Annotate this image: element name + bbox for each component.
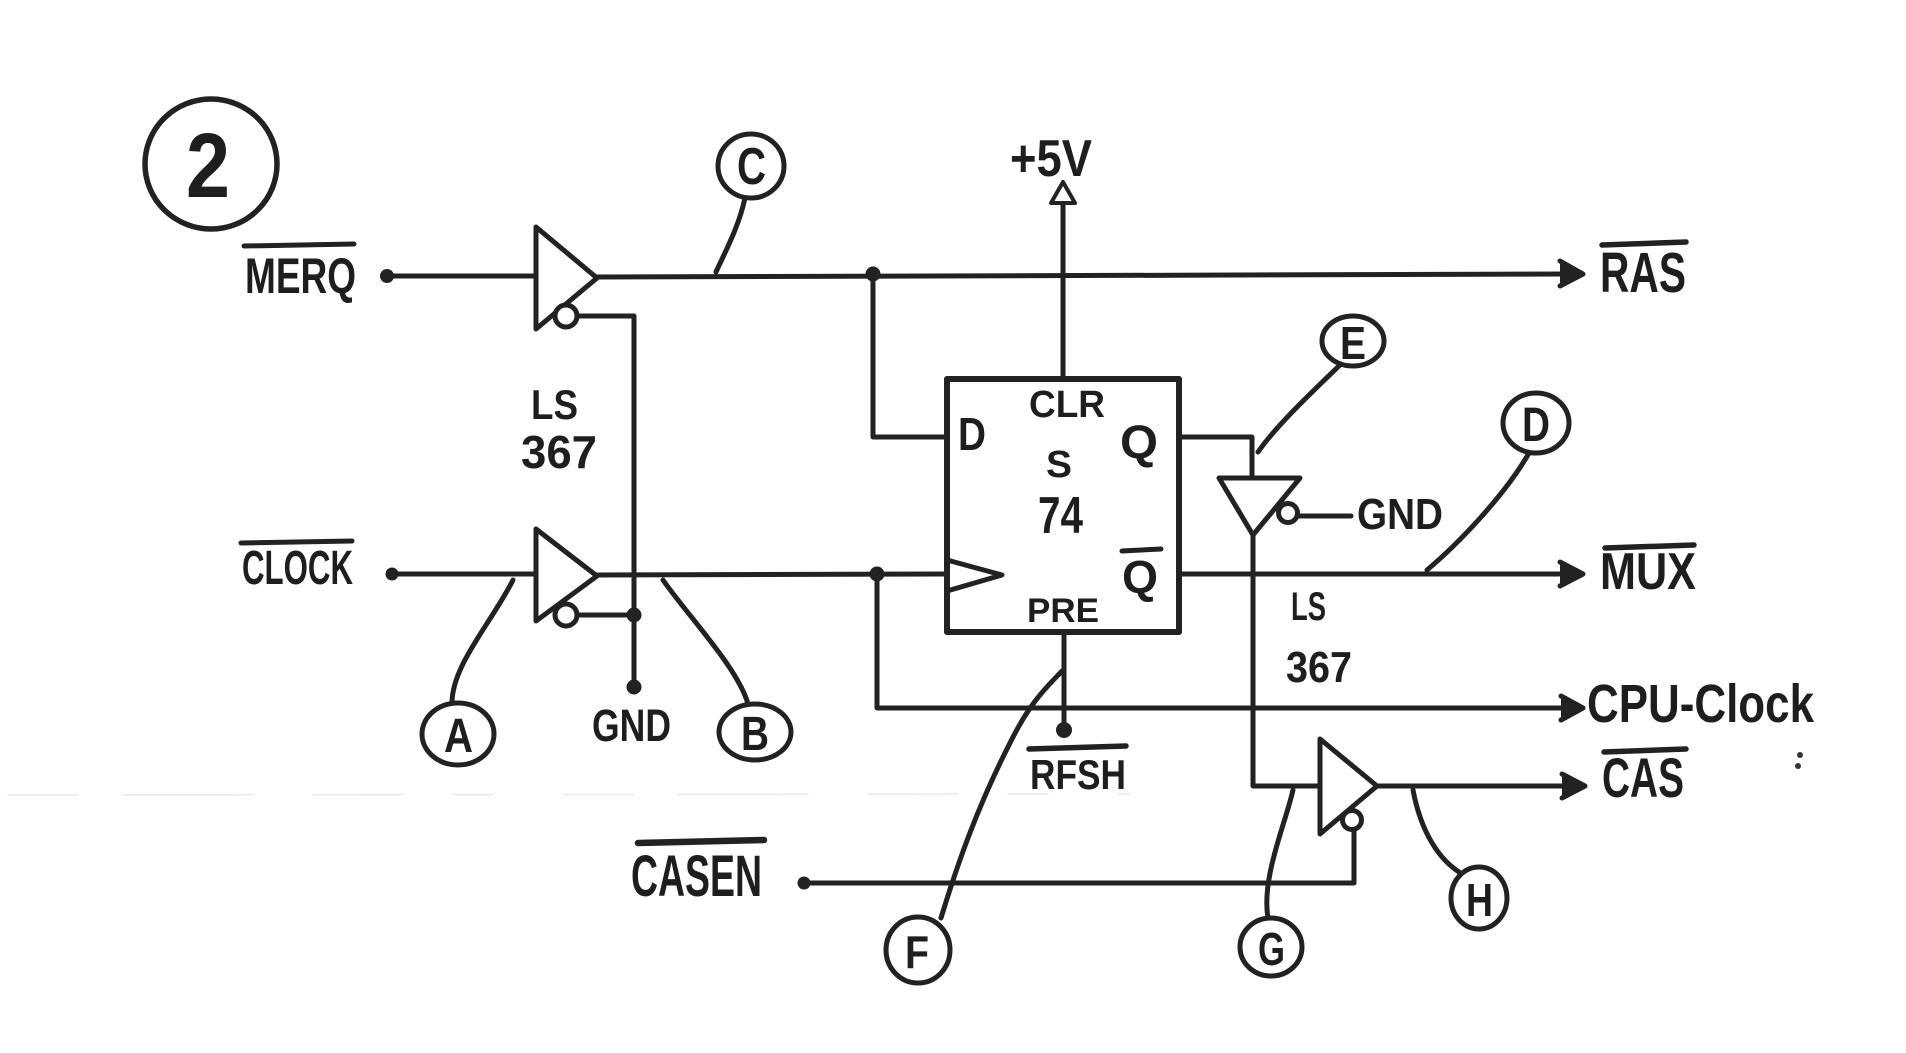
svg-text:74: 74: [1038, 487, 1083, 545]
net label CAS output: [1602, 746, 1686, 809]
node A (circled letter) with leader curve: [422, 580, 513, 765]
svg-text:E: E: [1340, 317, 1366, 369]
svg-text:PRE: PRE: [1027, 592, 1099, 630]
net label RFSH (active low): [1029, 746, 1126, 798]
net label RAS output: [1600, 241, 1686, 305]
svg-text:CAS: CAS: [1602, 746, 1684, 809]
svg-text:RAS: RAS: [1600, 241, 1686, 305]
node E (circled letter) with leader curve: [1258, 316, 1384, 452]
node H (circled letter) with leader curve: [1413, 790, 1507, 929]
wire enable of U3 to enable rail: [578, 613, 634, 618]
wire CLOCK buffered to flip-flop clock: [597, 574, 947, 575]
svg-text:G: G: [1258, 923, 1285, 975]
arrowhead CPU-Clock: [1561, 696, 1583, 720]
node D (circled letter) with leader curve: [1427, 393, 1569, 570]
wire U4 enable to GND: [1298, 514, 1351, 519]
wire CASEN to U5 enable with terminal dot: [798, 830, 1355, 890]
power +5V arrow to CLR pin: [1051, 182, 1075, 378]
net label MUX output: [1600, 543, 1696, 601]
stray colon mark: [1795, 752, 1803, 769]
wire MERQ input with terminal dot: [380, 269, 536, 283]
part label S 74: [1038, 444, 1083, 545]
wire enable of U1 to common enable rail: [578, 316, 634, 608]
svg-text:Q: Q: [1120, 415, 1158, 468]
wire CPU-Clock from clock node: [877, 574, 1570, 708]
svg-text:B: B: [741, 708, 769, 761]
wire RAS net (U1 output to RAS arrow): [597, 274, 1568, 277]
arrowhead RAS: [1560, 261, 1583, 286]
clock input triangle of U2: [947, 560, 1002, 591]
wire CAS output: [1377, 784, 1570, 789]
svg-text:S: S: [1046, 444, 1072, 486]
svg-text:CLOCK: CLOCK: [242, 542, 353, 595]
net label CLOCK (active low): [241, 541, 353, 595]
node B (circled letter) with leader curve: [663, 580, 791, 761]
node F (circled letter) with leader curve: [886, 671, 1062, 983]
arrowhead MUX: [1560, 562, 1583, 586]
pin label Q-bar: [1122, 549, 1161, 603]
wire CLOCK input with terminal dot: [386, 568, 537, 581]
svg-text:RFSH: RFSH: [1030, 751, 1126, 798]
node C (circled letter) with leader curve: [716, 134, 784, 272]
wire U4 output down to buffer U5 input: [1253, 535, 1319, 786]
svg-text:LS: LS: [1291, 585, 1326, 629]
wire Q output to inverter U4: [1179, 437, 1252, 477]
arrowhead CAS: [1562, 774, 1585, 798]
net label CASEN (active low): [631, 840, 764, 909]
scan artifact faint line: [8, 794, 1130, 795]
svg-text:2: 2: [186, 115, 230, 217]
node junction on clock wire (to CPU-Clock): [870, 567, 885, 582]
flip-flop U2 (74S74) body: [947, 379, 1179, 632]
node G (circled letter) with leader curve: [1240, 790, 1302, 976]
node junction of enable rail: [627, 608, 642, 623]
svg-text:C: C: [737, 138, 766, 196]
svg-text:D: D: [1522, 399, 1550, 452]
svg-text:F: F: [905, 926, 929, 978]
buffer U3 (74LS367 section, CLOCK): [536, 529, 597, 626]
figure number 2 (circled): [145, 99, 277, 229]
buffer U1 (74LS367 section, MERQ): [536, 227, 597, 329]
wire PRE pin to RFSH with terminal dot: [1056, 632, 1072, 738]
buffer U4 (74LS367 section, pointing down): [1219, 478, 1300, 535]
svg-text:GND: GND: [1357, 490, 1443, 539]
svg-text:Q: Q: [1122, 551, 1158, 603]
node junction on RAS wire (to D input): [866, 267, 881, 282]
svg-text:CLR: CLR: [1029, 384, 1105, 426]
net label MERQ (active low): [244, 244, 356, 304]
svg-text:H: H: [1466, 874, 1493, 926]
svg-text:MERQ: MERQ: [245, 248, 356, 304]
svg-text:CPU-Clock: CPU-Clock: [1587, 674, 1815, 734]
wire Q-bar to MUX arrow: [1179, 572, 1568, 577]
svg-text:367: 367: [1286, 643, 1352, 692]
svg-text:367: 367: [521, 426, 597, 478]
wire enable rail to GND with terminal dot: [627, 615, 642, 695]
svg-text:D: D: [958, 408, 986, 460]
value label LS 367 (left): [521, 381, 597, 478]
svg-text:+5V: +5V: [1010, 130, 1092, 188]
wire D input of flip-flop from RAS node: [873, 274, 947, 437]
svg-text:LS: LS: [531, 381, 578, 428]
svg-text:A: A: [444, 710, 473, 763]
svg-text:GND: GND: [592, 700, 671, 751]
value label LS 367 (right): [1286, 585, 1352, 692]
svg-text:MUX: MUX: [1600, 543, 1696, 601]
buffer U5 (74LS367 section, CAS): [1320, 739, 1377, 834]
svg-text:CASEN: CASEN: [631, 844, 762, 909]
